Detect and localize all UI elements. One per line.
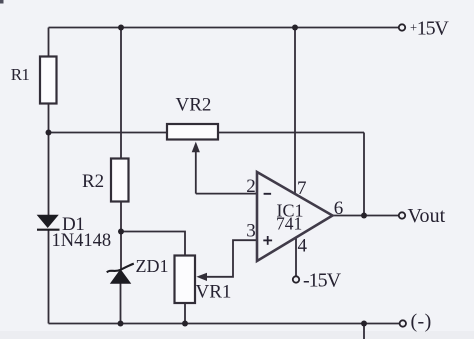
corner artifact — [0, 0, 4, 4]
op-amp IC1 741 — [257, 172, 333, 261]
wire node B to ZD1 cathode — [120, 232, 122, 270]
svg-text:15V: 15V — [417, 18, 450, 40]
potentiometer VR1 wiper arrowhead — [196, 273, 207, 281]
node B junction R2 / ZD1 / VR1 — [118, 229, 124, 235]
node junction bottom rail / stub — [361, 321, 367, 327]
wire pin 2 horizontal (wiper to inverting input) — [196, 193, 257, 195]
svg-text:1N4148: 1N4148 — [52, 231, 112, 251]
terminal Vout — [399, 212, 405, 218]
op-amp inverting input sign — [264, 193, 272, 195]
diode D1 — [37, 215, 60, 229]
svg-text:4: 4 — [298, 236, 308, 257]
svg-text:Vout: Vout — [408, 205, 446, 227]
node junction top rail / pin 7 — [292, 25, 298, 31]
svg-text:6: 6 — [334, 198, 344, 219]
svg-text:2: 2 — [246, 176, 256, 197]
svg-text:R1: R1 — [11, 65, 30, 84]
svg-text:741: 741 — [276, 214, 302, 234]
svg-text:(-): (-) — [411, 311, 432, 333]
terminal (-) — [400, 320, 406, 326]
wire feedback vertical (to output node) — [363, 133, 365, 216]
node junction bottom rail / VR1 — [182, 321, 188, 327]
terminal +15V — [399, 24, 405, 30]
resistor R1 — [40, 57, 57, 104]
svg-text:7: 7 — [297, 178, 307, 199]
wire left vertical (R1 bottom to D1 anode) — [48, 104, 50, 217]
wire pin 4 vertical (op-amp to -15V terminal) — [295, 238, 297, 277]
wire node B to VR1 top horizontal — [121, 232, 185, 256]
node A junction R1 / middle rail / D1 — [46, 130, 52, 136]
wire left vertical (D1 cathode to bottom rail) — [48, 230, 50, 324]
wire R2 branch vertical (top rail to R2) — [120, 28, 122, 159]
wire pin 7 vertical (top rail to op-amp) — [294, 28, 296, 194]
wire middle rail (VR2 right to feedback corner) — [218, 132, 364, 134]
svg-text:R2: R2 — [82, 171, 104, 192]
wire ZD1 anode to bottom rail — [120, 283, 122, 324]
wire VR1 bottom to bottom rail — [184, 303, 186, 324]
resistor R2 — [111, 159, 129, 202]
wire bottom rail — [49, 323, 400, 325]
svg-text:VR2: VR2 — [176, 95, 212, 116]
wire stub below bottom rail — [363, 324, 365, 339]
wire R2 bottom to node B — [120, 201, 122, 232]
terminal -15V — [293, 276, 299, 282]
svg-text:3: 3 — [246, 220, 256, 241]
wire pin 3 to VR1 wiper — [207, 240, 257, 277]
potentiometer VR2 wiper arrowhead — [192, 142, 200, 153]
node junction output / feedback — [361, 213, 367, 219]
node junction bottom rail / ZD1 — [118, 321, 124, 327]
node junction top rail / R2 branch — [118, 25, 124, 31]
svg-text:ZD1: ZD1 — [136, 256, 169, 276]
svg-text:-15V: -15V — [303, 270, 342, 292]
wire top +15V rail — [49, 27, 400, 29]
zener diode ZD1 — [107, 264, 134, 284]
potentiometer VR1 body — [175, 256, 196, 304]
svg-text:VR1: VR1 — [196, 282, 232, 303]
wire output (pin 6 to Vout terminal) — [333, 215, 400, 217]
wire left vertical top (rail to R1) — [48, 28, 50, 58]
potentiometer VR2 body — [167, 124, 218, 140]
wire middle rail (node A to VR2 left) — [49, 132, 168, 134]
op-amp non-inverting input sign — [263, 236, 272, 245]
wire VR2 wiper vertical — [195, 152, 197, 194]
